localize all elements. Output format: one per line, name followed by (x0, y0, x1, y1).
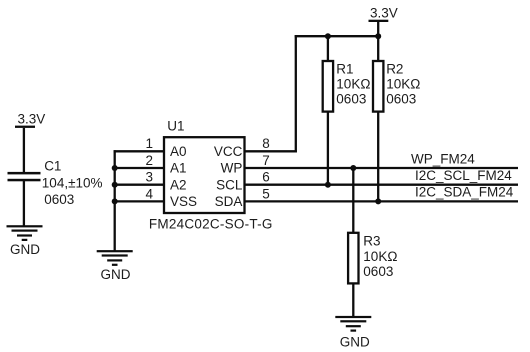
svg-text:A2: A2 (170, 177, 187, 192)
svg-text:1: 1 (145, 136, 153, 151)
svg-text:A0: A0 (170, 144, 187, 159)
net wire WP_FM24 (pin7) (245, 167, 518, 169)
net wire I2C_SCL_FM24 (pin6) (245, 184, 518, 186)
svg-text:I2C_SDA_FM24: I2C_SDA_FM24 (415, 185, 514, 200)
junction dot R1 / SCL (325, 182, 331, 188)
wire VCC riser (295, 35, 297, 152)
wire ground bus (left of U1) (114, 150, 116, 251)
power symbol 3.3V (top) (369, 5, 398, 22)
power symbol 3.3V (left, above C1) (15, 112, 45, 128)
wire C1 bottom to ground (23, 181, 25, 226)
svg-text:3.3V: 3.3V (370, 5, 398, 20)
resistor R3 (348, 233, 358, 284)
op-amp U1 (IC body FM24C02C) (164, 137, 245, 213)
svg-text:0603: 0603 (386, 91, 416, 106)
svg-text:3: 3 (145, 170, 153, 185)
svg-text:3.3V: 3.3V (18, 112, 46, 127)
wire pin4 VSS (114, 200, 165, 202)
wire power2 stem (377, 22, 379, 37)
svg-text:SDA: SDA (215, 194, 243, 209)
svg-text:8: 8 (262, 136, 270, 151)
junction dot R3 / WP (350, 165, 356, 171)
svg-text:GND: GND (10, 242, 40, 257)
svg-text:VCC: VCC (214, 144, 243, 159)
wire pin8 VCC horizontal (245, 150, 297, 152)
junction dot VCC rail / R1 (325, 33, 331, 39)
ground (C1) (7, 225, 43, 257)
svg-text:WP: WP (221, 161, 243, 176)
svg-text:GND: GND (340, 334, 370, 349)
wire R2 vertical (377, 35, 379, 202)
svg-text:10KΩ: 10KΩ (336, 76, 370, 91)
svg-text:R2: R2 (386, 61, 403, 76)
svg-text:R3: R3 (363, 234, 380, 249)
svg-text:GND: GND (101, 267, 131, 282)
junction dot pin3 (112, 182, 118, 188)
wire pin3 A2 (114, 184, 165, 186)
wire R3 vertical (352, 168, 354, 317)
resistor R2 (373, 61, 383, 112)
svg-text:10KΩ: 10KΩ (363, 249, 397, 264)
junction dot VCC rail / R2 (375, 33, 381, 39)
net wire I2C_SDA_FM24 (pin5) (245, 200, 518, 202)
wire pin1 A0 (114, 150, 165, 152)
resistor R1 (323, 61, 333, 112)
ground (U1 bus) (97, 250, 133, 282)
svg-text:C1: C1 (44, 158, 61, 173)
svg-text:2: 2 (145, 153, 153, 168)
svg-text:I2C_SCL_FM24: I2C_SCL_FM24 (415, 168, 512, 183)
svg-text:104,±10%: 104,±10% (42, 175, 103, 190)
wire VCC rail horizontal (295, 35, 379, 37)
svg-text:7: 7 (262, 153, 270, 168)
svg-text:4: 4 (145, 186, 153, 201)
svg-text:0603: 0603 (44, 192, 74, 207)
wire pin2 A1 (114, 167, 165, 169)
junction dot R2 / SDA (375, 198, 381, 204)
svg-text:10KΩ: 10KΩ (386, 76, 420, 91)
svg-text:5: 5 (262, 186, 270, 201)
junction dot pin4 (112, 198, 118, 204)
svg-text:6: 6 (262, 170, 270, 185)
junction dot pin2 (112, 165, 118, 171)
capacitor C1 (8, 172, 41, 181)
wire R1 vertical (327, 35, 329, 186)
svg-text:0603: 0603 (363, 264, 393, 279)
ground (R3) (335, 316, 371, 349)
svg-text:WP_FM24: WP_FM24 (411, 152, 475, 167)
svg-text:R1: R1 (336, 61, 353, 76)
svg-text:A1: A1 (170, 161, 187, 176)
svg-text:SCL: SCL (216, 177, 243, 192)
svg-text:VSS: VSS (170, 194, 197, 209)
wire power1 to C1 top (23, 128, 25, 173)
svg-text:FM24C02C-SO-T-G: FM24C02C-SO-T-G (149, 217, 273, 232)
svg-text:U1: U1 (167, 119, 184, 134)
svg-text:0603: 0603 (336, 91, 366, 106)
